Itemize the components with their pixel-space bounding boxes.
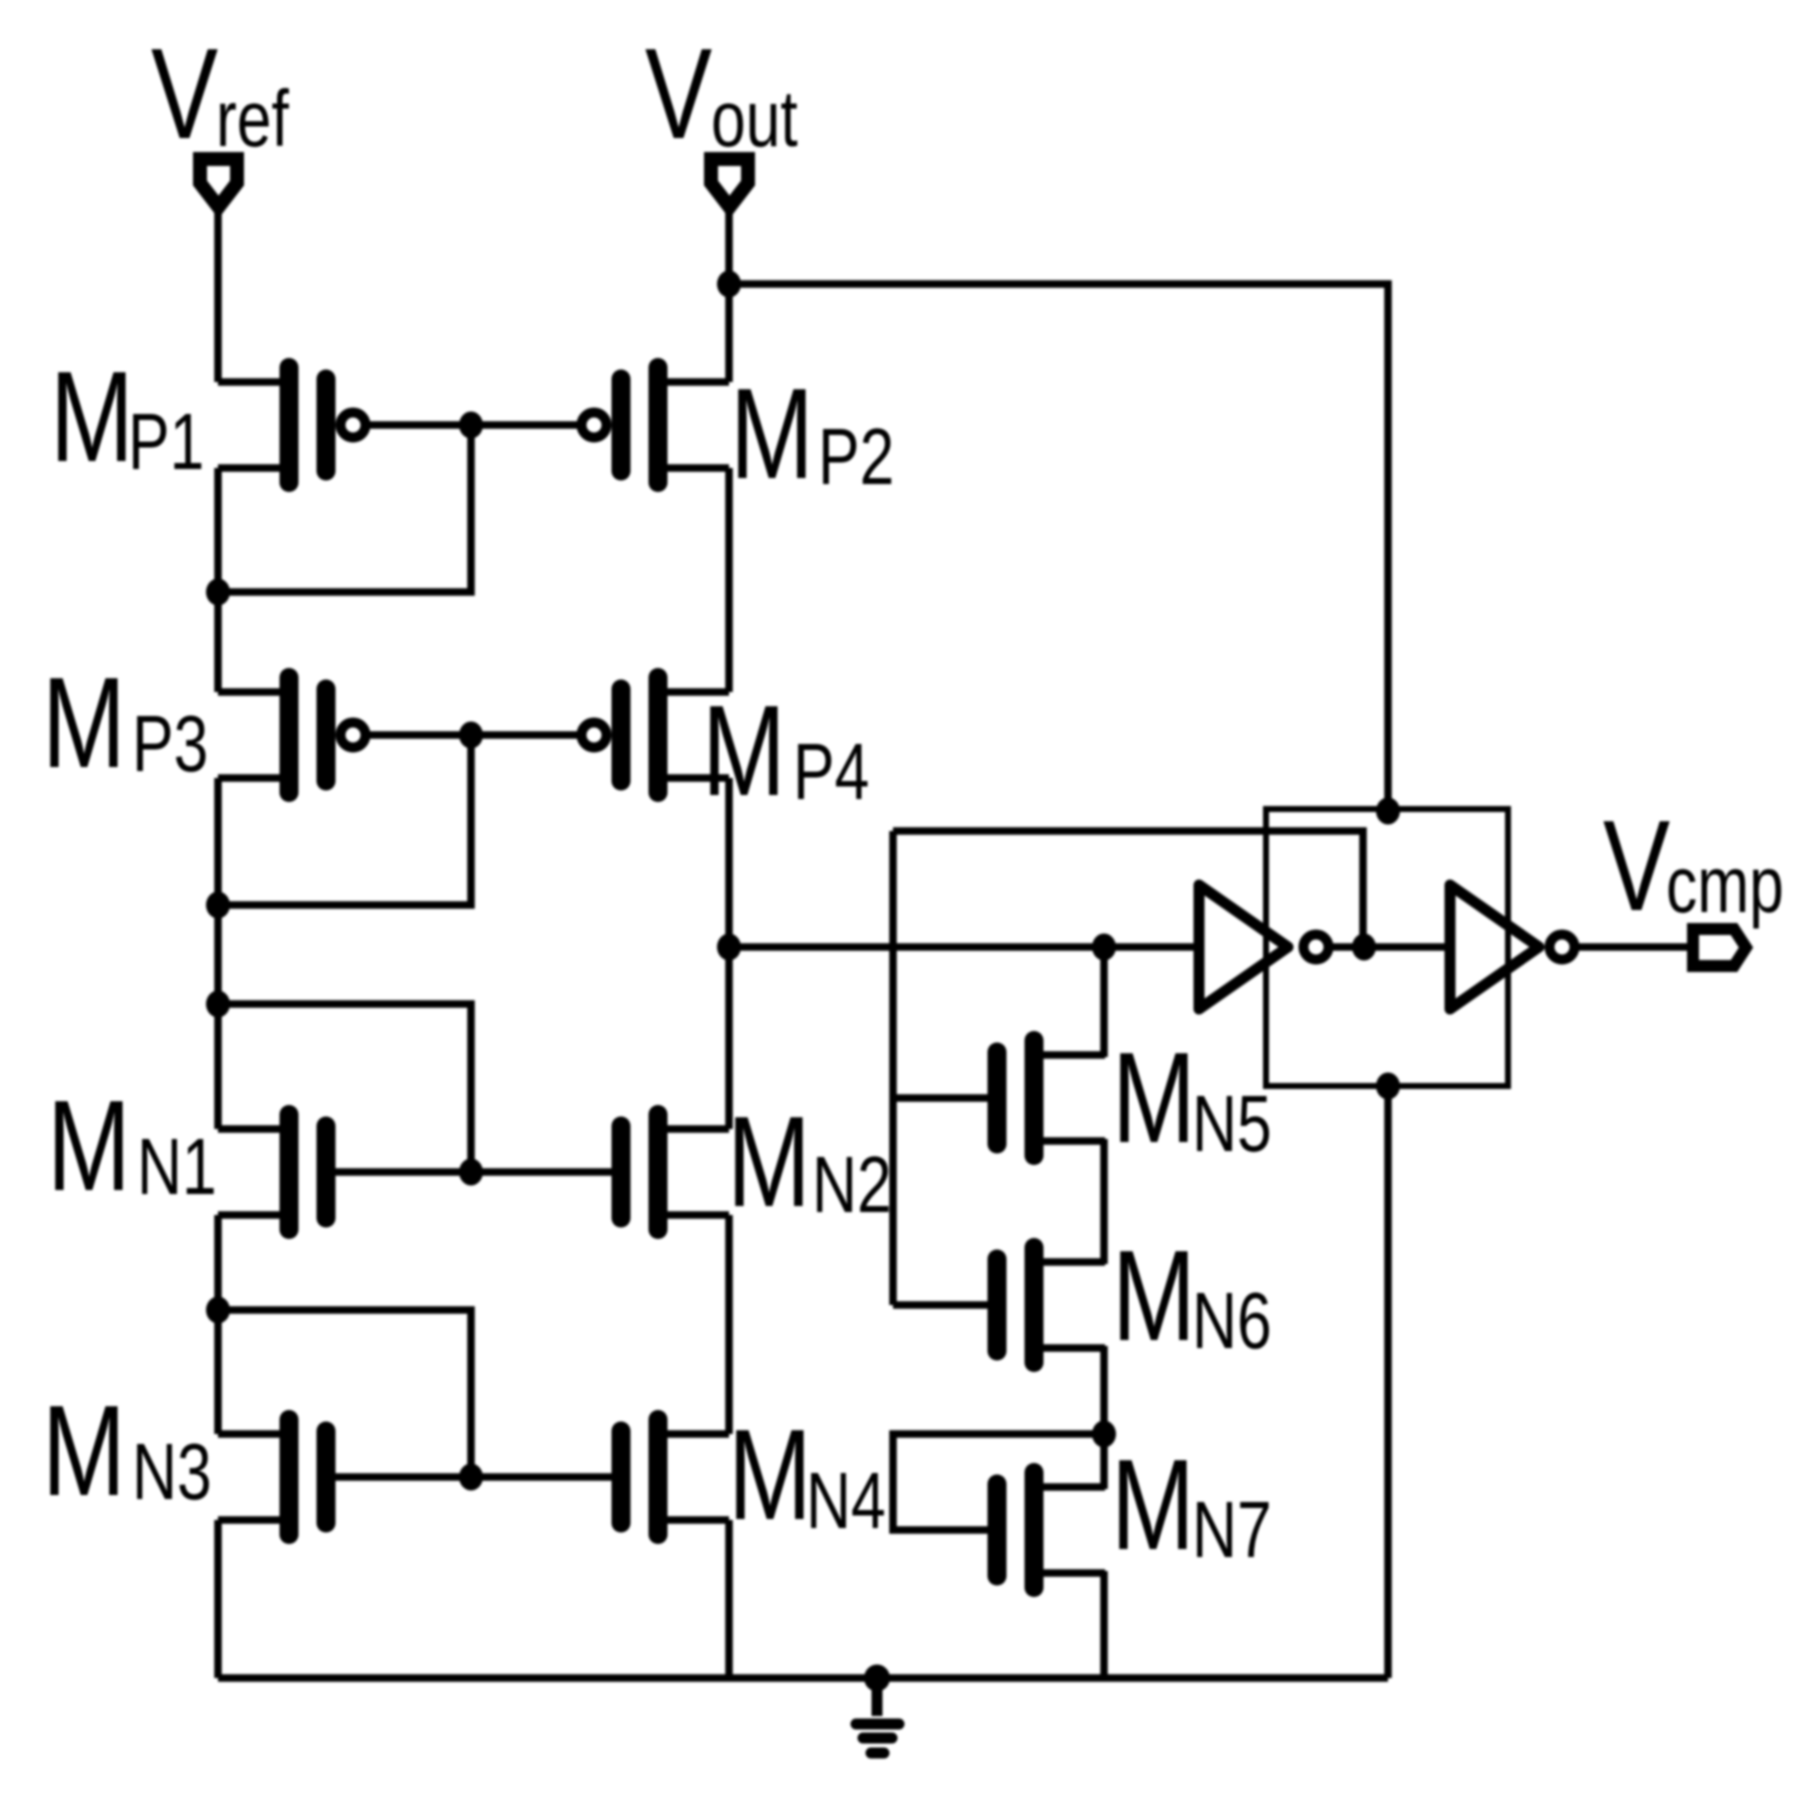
inverter U2 triangle <box>1450 885 1539 1009</box>
node: Vout junction <box>717 271 741 298</box>
wire: MN1-MN2 gate wire <box>326 1168 621 1176</box>
wire: MN6 source to MN7 drain <box>1100 1346 1108 1489</box>
node: MN3/MN4 gate junction <box>459 1464 483 1491</box>
svg-text:ref: ref <box>216 75 290 164</box>
svg-text:N1: N1 <box>137 1123 217 1212</box>
wire: inverter1 output to inverter2 input <box>1330 943 1452 951</box>
wire: MP1 drain to MP3 source <box>214 468 222 692</box>
wire: MP1 gate-drain diode connection <box>218 425 471 592</box>
transistor MN2 <box>621 1115 729 1230</box>
wire: Vout rail, port to MP2 source <box>725 208 733 382</box>
svg-text:M: M <box>50 344 134 489</box>
wire: MN5 source to MN6 drain <box>1100 1139 1108 1264</box>
ground <box>856 1678 899 1753</box>
wire: feedback from inverter1 output up and left to MN5/MN6 gate rail <box>893 831 1363 947</box>
node: ground junction <box>864 1665 890 1692</box>
wire: MP3 gate-drain diode connection <box>218 735 471 905</box>
wire: MN3-MN4 gate wire <box>326 1473 621 1481</box>
node: MN3 gate tap <box>206 1297 230 1324</box>
svg-text:M: M <box>1112 1223 1196 1368</box>
node: comparator input junction <box>717 934 741 961</box>
svg-text:N4: N4 <box>806 1457 886 1546</box>
wire: bottom ground rail <box>218 1674 1388 1682</box>
wire: MN7 gate-drain diode connection <box>893 1434 1104 1530</box>
wire: MP3 drain down to MN1 drain <box>214 778 222 1129</box>
wire: MN5 gate stub <box>893 1094 997 1102</box>
svg-text:M: M <box>1111 1432 1195 1577</box>
transistor MP2 <box>582 368 730 483</box>
wire: MN3 gate-drain diode connection <box>218 1310 471 1477</box>
wire: MN1 source down to MN3 drain <box>214 1215 222 1434</box>
svg-text:cmp: cmp <box>1666 841 1784 930</box>
wire: MN4 source down to bottom rail <box>725 1520 733 1678</box>
svg-text:V: V <box>645 21 712 166</box>
port Vcmp <box>1693 929 1746 966</box>
node: MN7 gate junction <box>1092 1421 1116 1448</box>
svg-text:P4: P4 <box>793 728 869 817</box>
svg-text:N6: N6 <box>1192 1277 1272 1366</box>
transistor MN7 <box>997 1473 1105 1588</box>
node: box top junction <box>1376 798 1400 825</box>
svg-text:V: V <box>1603 793 1670 938</box>
node: MN1/MN2 gate junction <box>459 1159 483 1186</box>
wire: inverter2 output to Vcmp port <box>1576 943 1692 951</box>
transistor MP1 <box>218 368 366 483</box>
wire: MN2 source down to MN4 drain <box>725 1215 733 1434</box>
wire: MN5/MN6 gate rail <box>889 831 897 1305</box>
inverter U1 output bubble <box>1304 935 1329 960</box>
transistor MN5 <box>997 1041 1105 1156</box>
wire: MP4 drain down to MN2 drain <box>725 778 733 1129</box>
svg-text:M: M <box>730 361 814 506</box>
wire: MP3-MP4 gate wire <box>353 731 594 739</box>
node: MN5 drain junction <box>1092 934 1116 961</box>
svg-text:P2: P2 <box>818 413 894 502</box>
transistor MN1 <box>218 1115 326 1230</box>
svg-text:M: M <box>702 678 786 823</box>
svg-text:M: M <box>728 1402 812 1547</box>
node: MP3/MP4 gate junction <box>459 722 483 749</box>
transistor MN3 <box>218 1420 326 1535</box>
wire: comparator input from MP4/MN2 drain to inverter 1 <box>729 943 1200 951</box>
svg-text:P3: P3 <box>132 700 208 789</box>
svg-text:M: M <box>1112 1025 1196 1170</box>
wire: MN6 gate stub <box>893 1301 997 1309</box>
wire: MN3 source down to bottom rail <box>214 1520 222 1678</box>
svg-text:V: V <box>151 21 218 166</box>
transistor MN6 <box>997 1248 1105 1363</box>
svg-text:N5: N5 <box>1192 1080 1272 1169</box>
wire: MN1 gate-drain diode connection <box>218 1004 471 1172</box>
wire: inverter input node down to MN5 drain <box>1100 947 1108 1057</box>
svg-text:M: M <box>727 1089 811 1234</box>
port Vref <box>200 159 237 207</box>
node: MP1/MP2 gate junction <box>459 412 483 439</box>
transistor MP3 <box>218 678 366 793</box>
node: MP1 drain tap <box>206 579 230 606</box>
transistor MP4 <box>582 678 730 793</box>
wire: MP1-MP2 gate wire <box>353 421 594 429</box>
wire: Vout node to right rail (top) <box>729 284 1388 809</box>
wire: MP2 drain to MP4 source <box>725 468 733 692</box>
svg-text:M: M <box>42 1378 126 1523</box>
node: box bottom junction <box>1376 1073 1400 1100</box>
inverter U1 triangle <box>1199 885 1288 1009</box>
wire: right rail below inverter box to bottom rail <box>1384 1086 1392 1678</box>
svg-text:N7: N7 <box>1192 1486 1272 1575</box>
svg-text:out: out <box>711 75 798 164</box>
svg-text:P1: P1 <box>128 398 204 487</box>
svg-text:N3: N3 <box>132 1428 212 1517</box>
node: MN1 gate tap <box>206 991 230 1018</box>
svg-text:N2: N2 <box>812 1141 892 1230</box>
inverter U2 output bubble <box>1550 935 1575 960</box>
node: MP3 drain tap <box>206 892 230 919</box>
svg-text:M: M <box>42 650 126 795</box>
transistor MN4 <box>621 1420 729 1535</box>
node: inverter1 output junction <box>1352 934 1376 961</box>
wire: MN7 source to bottom rail <box>1100 1571 1108 1678</box>
port Vout <box>711 159 748 207</box>
wire: Vref rail, port to MP1 source <box>214 208 222 382</box>
svg-text:M: M <box>47 1073 131 1218</box>
inverter supply box <box>1266 809 1508 1086</box>
